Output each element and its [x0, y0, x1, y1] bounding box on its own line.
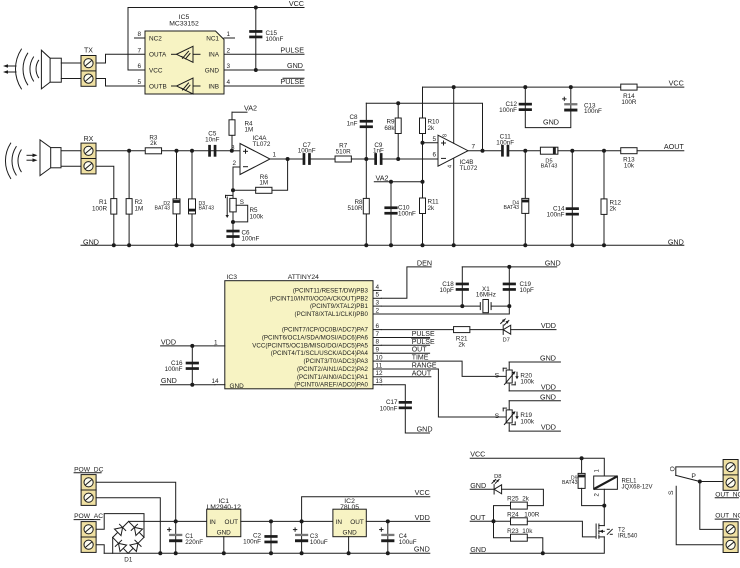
junction C16 VDD — [190, 344, 194, 348]
svg-text:10pF: 10pF — [520, 287, 535, 294]
net label PULSE inverted — [280, 77, 304, 86]
svg-text:6: 6 — [432, 152, 436, 159]
wire pole to OUT_NO — [700, 482, 723, 530]
svg-text:2k: 2k — [428, 125, 436, 132]
junction C4 GND — [386, 551, 390, 555]
wire R10 pin5 VA2 column — [422, 87, 424, 182]
wire R3 to C5 — [162, 150, 232, 152]
wire R20 top lead — [508, 362, 510, 370]
svg-text:100R: 100R — [92, 205, 108, 212]
wire D5 to R13 — [558, 150, 621, 152]
trimmer R5 — [226, 195, 265, 220]
wire RX speaker to block pin2 — [61, 165, 81, 167]
IC3 pin 10 stub — [373, 355, 383, 362]
svg-text:OUTB: OUTB — [149, 83, 167, 90]
capacitor C14 — [547, 205, 579, 218]
wire R2 column — [128, 151, 130, 246]
svg-text:2k: 2k — [428, 205, 436, 212]
svg-text:100R: 100R — [524, 512, 540, 519]
wire D2 column — [176, 151, 178, 246]
wire TX block to IC5 OUTB — [96, 79, 145, 87]
svg-text:RX: RX — [84, 136, 94, 143]
svg-text:VCC(PCINT5/OC1B/MISO/DO/ADC5)P: VCC(PCINT5/OC1B/MISO/DO/ADC5)PA5 — [252, 342, 368, 349]
wire pin10 TIME to R20 wiper — [381, 361, 506, 376]
TX sound wave arcs — [15, 49, 38, 89]
wire bridge + to IC1 — [129, 520, 207, 522]
wire VCC riser — [302, 497, 430, 522]
wire C2 column — [270, 521, 272, 553]
capacitor C9 — [373, 142, 384, 165]
svg-text:TX: TX — [84, 48, 93, 55]
svg-text:7: 7 — [376, 331, 380, 338]
junction C19 GND stub — [507, 265, 511, 269]
net label GND R19 — [540, 392, 556, 401]
svg-text:(PCINT1/AIN0/ADC1)PA1: (PCINT1/AIN0/ADC1)PA1 — [297, 374, 369, 381]
net label VCC right — [669, 78, 684, 87]
op-amp IC4A — [240, 135, 271, 174]
svg-text:R25: R25 — [507, 496, 519, 503]
wire R23 to GND — [527, 538, 543, 554]
svg-text:2: 2 — [232, 160, 236, 167]
LED D7 — [501, 319, 511, 344]
net label OUT_NO — [715, 513, 740, 520]
junction GND rail — [570, 243, 574, 247]
svg-text:(PCINT11/RESET/DW)PB3: (PCINT11/RESET/DW)PB3 — [293, 287, 369, 294]
IC4B power pin 8 — [443, 87, 454, 143]
net label OUT pin9 — [412, 347, 428, 354]
junction C10 VA2 — [389, 180, 393, 184]
net label GND right — [668, 237, 684, 246]
wire RX speaker to block pin1 — [61, 150, 81, 152]
wire IC4A output — [270, 158, 303, 160]
wire R25 to OUT node — [494, 506, 511, 522]
wire R20 top to GND — [509, 361, 560, 363]
junction GND rail — [421, 243, 425, 247]
junction C8 R8 C9 — [364, 157, 368, 161]
svg-text:(PCINT10/INT0/OC0A/CKOUT)PB2: (PCINT10/INT0/OC0A/CKOUT)PB2 — [270, 295, 369, 302]
svg-text:GND: GND — [205, 67, 220, 74]
IC3 pin 3 stub — [373, 300, 381, 307]
wire R21 to D7 — [470, 329, 503, 331]
IC4A pin 1 number — [273, 152, 277, 159]
wire to T2 drain — [603, 506, 605, 526]
wire R9 column — [397, 103, 399, 159]
capacitor C1 (polarized) — [168, 528, 204, 546]
svg-text:10nF: 10nF — [205, 136, 220, 143]
wire C10 column — [390, 182, 392, 246]
capacitor C6 — [226, 229, 259, 242]
net label VDD pin6 — [541, 321, 556, 330]
svg-text:S: S — [668, 490, 675, 495]
capacitor C12 — [499, 101, 532, 114]
junction GND rail — [112, 243, 116, 247]
svg-text:GND: GND — [417, 425, 433, 434]
svg-text:5: 5 — [432, 136, 436, 143]
resistor R12 — [601, 199, 622, 215]
wire feedback right leg — [272, 159, 288, 190]
svg-text:1M: 1M — [259, 180, 268, 187]
svg-text:100k: 100k — [520, 379, 535, 386]
junction R10 pin5 — [421, 141, 425, 145]
svg-text:IN: IN — [209, 519, 216, 526]
wire RX to R3 — [96, 150, 145, 152]
svg-text:PULSE: PULSE — [412, 339, 435, 346]
svg-text:13: 13 — [376, 378, 384, 385]
net label GND bottom relay — [470, 545, 486, 554]
svg-text:100nF: 100nF — [584, 108, 602, 115]
svg-text:8: 8 — [376, 339, 380, 346]
svg-text:TL072: TL072 — [253, 141, 271, 148]
svg-text:GND: GND — [287, 61, 303, 70]
net label VDD at IC3 — [161, 337, 176, 346]
svg-text:JQX68-12V: JQX68-12V — [622, 484, 653, 490]
wire C4 column — [387, 521, 389, 553]
connector RX — [81, 143, 96, 174]
wire R5 wiper loop — [233, 205, 248, 222]
connector POW_DC — [81, 475, 96, 506]
svg-text:7: 7 — [472, 143, 476, 150]
wire IC2 GND pin — [348, 537, 350, 554]
svg-text:VCC: VCC — [289, 0, 304, 8]
wire GND to T2 source — [470, 537, 604, 553]
resistor R24 — [507, 512, 540, 525]
transducer TX speaker symbol — [41, 50, 61, 89]
IC5 pin 8 stub — [135, 31, 146, 38]
svg-text:100nF: 100nF — [165, 366, 183, 373]
wire relay pin2 lead — [603, 489, 605, 505]
svg-text:TL072: TL072 — [460, 165, 478, 172]
svg-text:16MHz: 16MHz — [476, 292, 496, 299]
resistor R1 — [92, 199, 117, 215]
resistor R21 — [454, 327, 470, 349]
net label RANGE — [412, 363, 437, 370]
svg-text:VCC: VCC — [415, 488, 430, 497]
IC5 pin 3 number — [227, 63, 231, 70]
svg-text:GND: GND — [470, 481, 486, 490]
junction pin8 rail — [452, 85, 456, 89]
svg-text:10pF: 10pF — [439, 287, 454, 294]
junction C16 GND — [190, 383, 194, 387]
svg-text:(PCINT0/AREF/ADC0)PA0: (PCINT0/AREF/ADC0)PA0 — [294, 382, 368, 389]
svg-text:4: 4 — [376, 284, 380, 291]
IC5 pin 1 stub NC1 — [224, 31, 235, 38]
wire C3 column — [301, 521, 303, 553]
svg-text:PULSE: PULSE — [280, 46, 304, 55]
wire VA2 through R4 to opamp + — [231, 112, 233, 151]
junction contact pole — [698, 480, 702, 484]
svg-text:1nF: 1nF — [347, 120, 358, 127]
IC3 pin 6 stub — [373, 323, 381, 330]
wire IC4B output — [468, 150, 502, 152]
junction C1 GND — [174, 551, 178, 555]
junction GND rail — [190, 243, 194, 247]
junction GND rail — [127, 243, 131, 247]
svg-text:OUT: OUT — [350, 519, 364, 526]
label RX — [84, 136, 94, 143]
svg-text:100uF: 100uF — [310, 539, 328, 546]
svg-text:GND: GND — [540, 392, 556, 401]
junction crystal pin2 — [507, 304, 511, 308]
net label GND left — [83, 237, 99, 246]
svg-text:OUT_NO: OUT_NO — [715, 513, 740, 520]
svg-text:510R: 510R — [336, 148, 352, 155]
wire pin12 AOUT — [381, 376, 431, 378]
net label AOUT pin12 — [412, 370, 432, 377]
svg-text:2: 2 — [227, 48, 231, 55]
svg-text:VDD: VDD — [415, 513, 430, 522]
IC5 pin 4 number — [227, 79, 231, 86]
svg-text:(PCINT4/T1/SCL/USCK/ADC4)PA4: (PCINT4/T1/SCL/USCK/ADC4)PA4 — [271, 350, 369, 357]
svg-text:78L05: 78L05 — [340, 504, 359, 511]
diode D2 — [155, 199, 180, 214]
wire INA to PULSE — [224, 53, 304, 55]
IC5 pin 2 number — [227, 48, 231, 55]
svg-text:BAT43: BAT43 — [562, 480, 578, 486]
junction OUT node — [492, 519, 496, 523]
svg-text:3: 3 — [227, 63, 231, 70]
wire analog GND rail — [81, 244, 684, 246]
wire C8 column — [365, 103, 367, 159]
resistor R11 — [420, 198, 440, 214]
wire pin8 PULSE inverted — [381, 344, 429, 346]
junction C3 VCC riser — [300, 519, 304, 523]
junction R12 — [602, 149, 606, 153]
trimmer R19 — [495, 408, 535, 426]
wire pin7 PULSE — [381, 337, 429, 339]
wire C16 column — [191, 346, 193, 385]
net label AOUT — [664, 142, 685, 151]
svg-text:4: 4 — [448, 165, 454, 168]
net label TIME — [412, 355, 429, 362]
svg-text:VDD: VDD — [161, 337, 176, 346]
wire DC- to GND — [96, 498, 160, 554]
junction C6 GND rail — [231, 243, 235, 247]
svg-text:100R: 100R — [621, 99, 637, 106]
svg-text:100k: 100k — [250, 213, 265, 220]
junction R5-C6 — [231, 220, 235, 224]
wire VDD out — [366, 520, 430, 522]
wire IC5 VCC pin to VCC rail — [128, 8, 304, 71]
resistor R25 — [507, 496, 530, 510]
resistor R10 — [420, 118, 440, 134]
capacitor C7 — [298, 142, 316, 165]
svg-text:100nF: 100nF — [398, 211, 416, 218]
junction C18 crystal — [460, 304, 464, 308]
svg-text:VCC: VCC — [149, 67, 163, 74]
connector TX — [81, 56, 96, 87]
IC4B pin 7 number — [472, 143, 476, 150]
svg-text:100nF: 100nF — [547, 212, 565, 219]
wire D4 column — [524, 151, 526, 246]
svg-text:GND: GND — [543, 117, 559, 126]
net label VCC power — [415, 488, 430, 497]
svg-text:ATTINY24: ATTINY24 — [288, 274, 319, 281]
wire TX block to IC5 OUTA — [96, 54, 145, 63]
net label GND at D8 — [470, 481, 486, 490]
junction C15-GND — [254, 68, 258, 72]
relay contact P common — [691, 473, 723, 482]
IC3 pin 7 stub — [373, 331, 381, 338]
wire D8 to R25 — [502, 489, 544, 505]
wire pin3 to crystal — [381, 305, 480, 307]
wire 12V rail — [241, 520, 333, 522]
wire pin11 RANGE to R19 wiper — [381, 369, 506, 417]
svg-text:(PCINT7/ICP/OC0B/ADC7)PA7: (PCINT7/ICP/OC0B/ADC7)PA7 — [282, 327, 369, 334]
resistor R14 — [621, 84, 637, 106]
junction DC- GND — [158, 551, 162, 555]
svg-text:RANGE: RANGE — [412, 363, 437, 370]
junction IC1 GND — [222, 551, 226, 555]
junction IC2 GND — [347, 551, 351, 555]
wire C18 column — [461, 267, 463, 306]
net label POW_AC — [74, 513, 103, 520]
capacitor C8 — [347, 114, 373, 128]
wire feedback to R6 — [233, 189, 256, 191]
svg-text:GND: GND — [545, 258, 561, 267]
svg-text:D1: D1 — [124, 557, 133, 564]
svg-text:2k: 2k — [610, 206, 618, 213]
svg-text:100nF: 100nF — [298, 148, 316, 155]
svg-text:12: 12 — [376, 370, 384, 377]
svg-text:AOUT: AOUT — [664, 142, 685, 151]
IC3 pin 11 stub — [373, 362, 383, 369]
relay pin 2 number — [595, 493, 601, 497]
svg-text:D8: D8 — [494, 474, 501, 480]
svg-text:100uF: 100uF — [399, 539, 417, 546]
relay contact O terminal wire — [669, 466, 723, 475]
svg-text:GND: GND — [230, 383, 245, 390]
diode D9 — [562, 473, 585, 488]
wire TX speaker to block pin2 — [61, 78, 81, 80]
resistor R8 — [347, 198, 369, 214]
wire pin2 up to crystal node — [381, 306, 509, 314]
IC3 pin 2 stub — [373, 307, 381, 314]
resistor R7 — [335, 143, 351, 162]
svg-text:GND: GND — [668, 237, 684, 246]
wire OUT to R24 — [470, 520, 510, 522]
junction R6-R5 node — [231, 188, 235, 192]
junction D2-row — [175, 149, 179, 153]
capacitor C18 — [439, 281, 468, 294]
net label GND at IC3 — [161, 376, 177, 385]
wire TX speaker to block pin1 — [61, 62, 81, 64]
svg-text:2k: 2k — [150, 140, 158, 147]
wire to C6 and GND — [232, 222, 234, 245]
svg-text:GND: GND — [470, 545, 486, 554]
svg-text:5: 5 — [376, 292, 380, 299]
wire VDD to pin1 — [161, 345, 215, 347]
junction D9 VCC — [580, 456, 584, 460]
svg-text:100nF: 100nF — [243, 539, 261, 546]
svg-text:IC3: IC3 — [227, 274, 238, 281]
svg-text:14: 14 — [212, 378, 220, 385]
resistor R23 — [507, 528, 533, 541]
junction GND rail — [389, 243, 393, 247]
junction C12 rail — [523, 85, 527, 89]
capacitor C3 (polarized) — [293, 528, 328, 546]
wire to IC4B pin5 — [423, 142, 439, 144]
wire IC1 GND pin — [223, 537, 225, 554]
svg-text:100nF: 100nF — [242, 236, 260, 243]
svg-text:11: 11 — [376, 362, 383, 369]
net label GND at C17 — [417, 425, 433, 434]
svg-text:OUT: OUT — [412, 347, 428, 354]
svg-text:3: 3 — [376, 300, 380, 307]
wire GND to D8 — [470, 488, 494, 490]
svg-text:MC33152: MC33152 — [169, 21, 199, 28]
junction output-feedback — [286, 157, 290, 161]
svg-text:(PCINT6/OC1A/SDA/MOSI/ADC6)PA6: (PCINT6/OC1A/SDA/MOSI/ADC6)PA6 — [262, 335, 369, 342]
net label GND crystal — [545, 258, 561, 267]
capacitor C16 — [165, 360, 199, 373]
junction GND rail — [523, 243, 527, 247]
net label POW_DC — [74, 466, 104, 473]
svg-text:220nF: 220nF — [185, 539, 203, 546]
net label GND decoupling — [543, 117, 559, 126]
junction R2-row — [127, 149, 131, 153]
junction C3 GND — [300, 551, 304, 555]
capacitor C17 — [380, 399, 412, 412]
IC3 pin 5 stub — [373, 292, 381, 299]
svg-text:BAT43: BAT43 — [155, 206, 171, 212]
trimmer R20 — [495, 368, 535, 386]
connector OUT_NC — [723, 460, 738, 491]
svg-text:10k: 10k — [624, 163, 635, 170]
svg-text:POW_AC: POW_AC — [74, 513, 103, 520]
junction R9 bottom — [396, 157, 400, 161]
svg-text:100nF: 100nF — [266, 36, 284, 43]
wire pin5 to DEN — [381, 267, 431, 298]
svg-text:(PCINT9/XTAL2)PB1: (PCINT9/XTAL2)PB1 — [310, 303, 369, 310]
wire R19 top lead — [508, 401, 510, 410]
capacitor C10 — [384, 204, 416, 217]
svg-text:PULSE: PULSE — [412, 331, 435, 338]
svg-text:AOUT: AOUT — [412, 370, 432, 377]
capacitor C19 — [503, 281, 534, 294]
svg-text:P: P — [691, 473, 696, 480]
op-amp IC4B — [438, 135, 478, 172]
resistor R2 — [126, 199, 143, 215]
resistor R3 — [145, 135, 161, 154]
svg-text:IN: IN — [336, 519, 343, 526]
relay contact S terminal wire — [668, 486, 723, 545]
svg-text:1: 1 — [273, 152, 277, 159]
wire R7 to node — [351, 158, 374, 160]
wire GND to pin14 — [161, 384, 215, 386]
diode D4 — [504, 198, 529, 213]
wire D7 to VDD — [511, 329, 556, 331]
svg-text:IRL540: IRL540 — [618, 533, 638, 539]
svg-text:VCC: VCC — [470, 450, 485, 459]
junction C13 rail — [569, 85, 573, 89]
junction C1 DC+ — [174, 519, 178, 523]
svg-text:OUT_NC: OUT_NC — [715, 491, 740, 498]
wire feedback top rail to output — [366, 103, 482, 151]
net label PULSE — [280, 46, 304, 55]
capacitor C13 (polarized) — [563, 97, 602, 115]
svg-text:R24: R24 — [507, 512, 519, 519]
capacitor C11 — [496, 134, 514, 157]
svg-text:9: 9 — [376, 347, 380, 354]
IC4A pin 2 number — [232, 160, 236, 167]
svg-text:3: 3 — [231, 144, 235, 151]
svg-text:VA2: VA2 — [376, 174, 389, 183]
resistor R6 — [256, 174, 272, 193]
svg-text:100nF: 100nF — [496, 139, 514, 146]
wire C19 column — [508, 267, 510, 306]
junction GND rail — [602, 243, 606, 247]
svg-text:VDD: VDD — [541, 321, 556, 330]
